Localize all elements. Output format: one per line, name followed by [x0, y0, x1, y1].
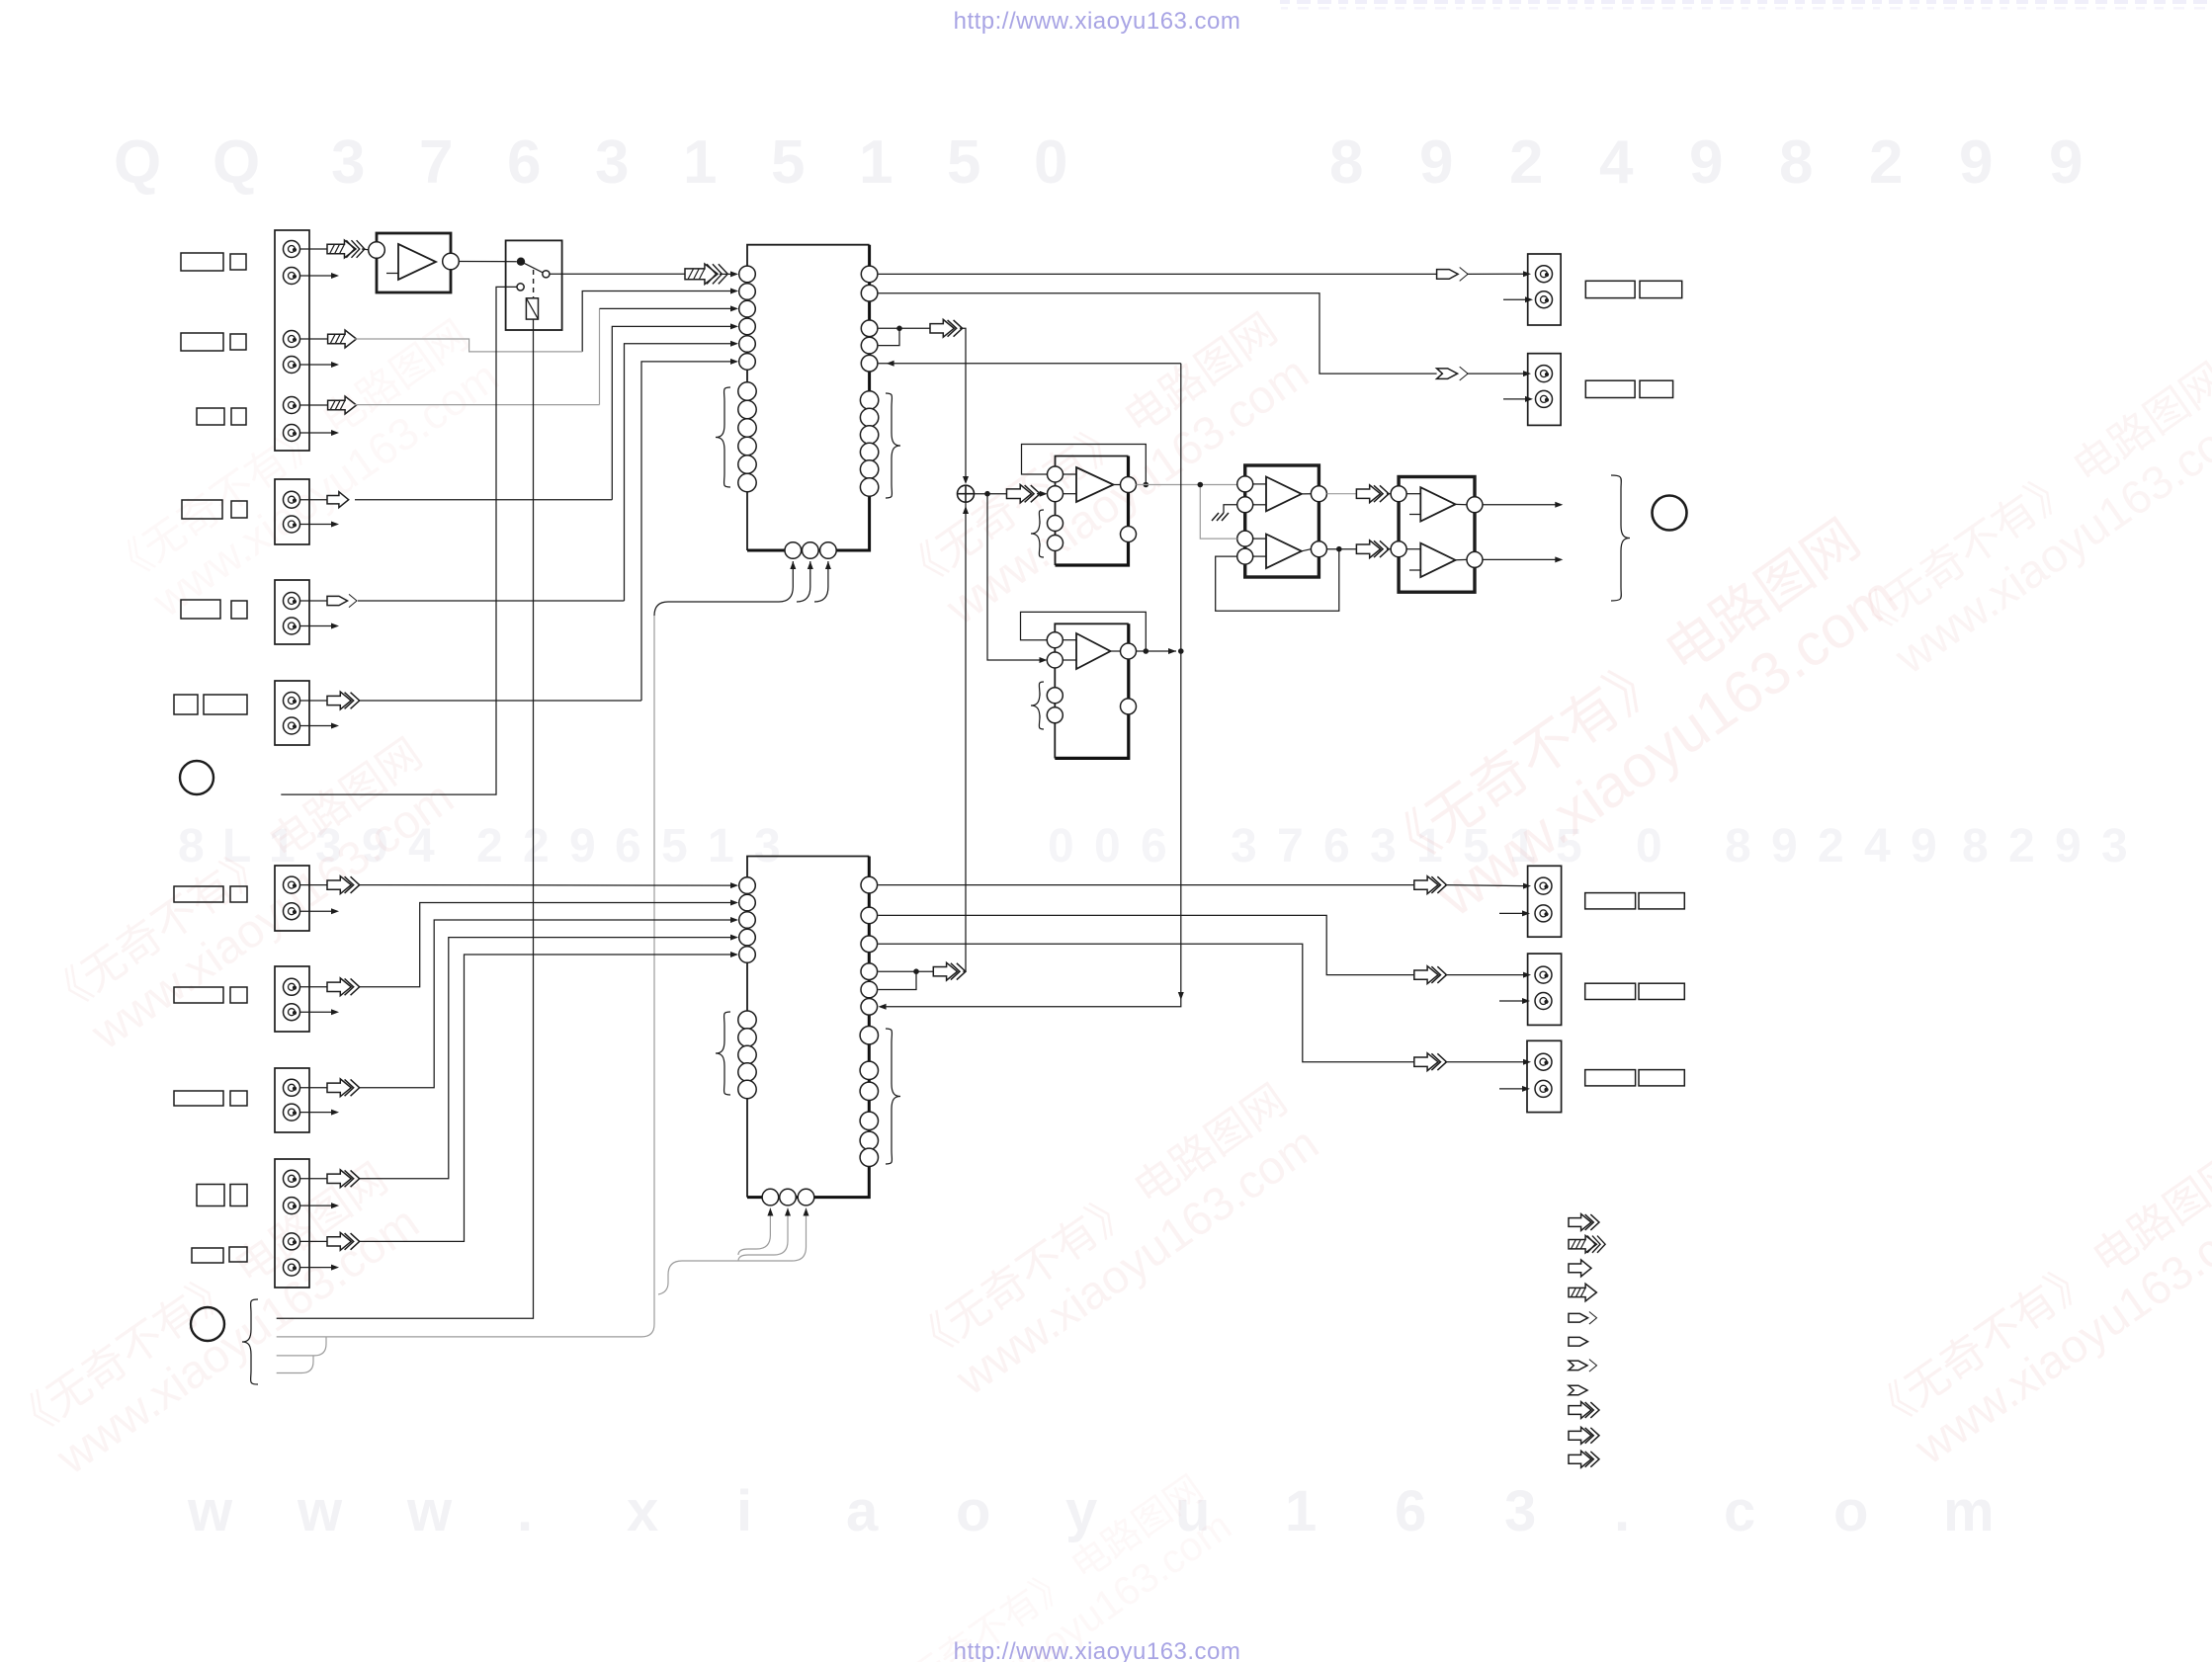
- IC2 left pin 3: [739, 912, 756, 929]
- label box L4a (G2): [182, 500, 222, 519]
- IC1 left pin 6: [739, 354, 756, 371]
- wire riser x606 (pin3 feed): [599, 308, 601, 404]
- opamp L2 gain brace: [1031, 682, 1044, 729]
- G8 row4 stub: [299, 1267, 333, 1269]
- blockB int wires: [1406, 493, 1420, 495]
- outline arrow G6: [327, 978, 360, 996]
- outline arrow G8a: [327, 1170, 360, 1188]
- watermark: pink bottom-center: [871, 1467, 1239, 1662]
- outline arrow JB2: [1414, 966, 1447, 984]
- opamp L2 in wires: [1063, 639, 1076, 641]
- blockA out1 circle: [1311, 486, 1326, 502]
- IC1 right pin 5: [861, 355, 878, 372]
- G8 jack4: [284, 1259, 300, 1276]
- hatched arrow D: [328, 396, 357, 414]
- junction dot L2/riser: [1178, 648, 1184, 654]
- hatched arrow C: [328, 330, 357, 348]
- opamp L1 box: [1056, 457, 1129, 566]
- IC2 left pin 1: [739, 877, 756, 894]
- wire amp out to relay: [459, 261, 517, 263]
- blockB tri2 inv stub: [1409, 569, 1420, 571]
- G5 row2 stub: [299, 910, 333, 912]
- label G7a: [174, 1091, 223, 1106]
- outline arrow G7: [327, 1079, 360, 1097]
- gray row4 merge: [277, 1357, 313, 1373]
- JT1 jack2 stub: [1503, 298, 1527, 300]
- G6 jack2: [284, 1004, 300, 1021]
- outline arrow G8b: [327, 1232, 360, 1250]
- wire IC1 right pin2 to jack: [879, 293, 1437, 374]
- IC2 right aux pin 3: [860, 1082, 878, 1100]
- opamp L1 in wires: [1063, 473, 1077, 475]
- gray row3 merge: [277, 1337, 326, 1356]
- opamp L1 below-in2 chain: [1055, 502, 1057, 565]
- wire G7 row1 to arrow: [299, 1087, 327, 1089]
- legend arrow 4 hatched: [1569, 1284, 1596, 1301]
- wire IC1 pin2 elbow: [582, 291, 731, 352]
- JB2 jack2 stub: [1499, 1000, 1523, 1002]
- connector group G1 box: [275, 230, 309, 451]
- IC1 right brace: [886, 393, 900, 498]
- label G6b: [230, 987, 247, 1003]
- G2 RCA jack row2: [284, 618, 300, 634]
- buffer amp box A1: [377, 233, 451, 292]
- blockA in2 circle: [1237, 497, 1253, 513]
- G8 jack3: [284, 1233, 300, 1250]
- IC1 left aux pin 6: [738, 473, 756, 491]
- hatched arrow B (to IC1 pin1): [685, 264, 727, 285]
- wire sum out to dot: [975, 493, 1007, 495]
- wire relay NC down-left: [281, 287, 517, 794]
- opamp L2 in1 circle: [1047, 632, 1063, 648]
- wire riser x649 to IC1 pin6: [641, 362, 731, 701]
- G1 RCA jack row5: [284, 397, 300, 414]
- blockB out1 circle: [1467, 497, 1483, 513]
- wire in3 tap: [1200, 485, 1236, 540]
- wire tag to JT1: [1467, 273, 1524, 275]
- G4 RCA jack row1: [284, 693, 300, 709]
- label G5b: [230, 886, 247, 902]
- wire jack5 gray to riser x606: [355, 404, 600, 406]
- IC1 bottom pin2 hook: [797, 561, 810, 602]
- G1 RCA jack row6: [284, 425, 300, 442]
- IC2 bottom pin2 hook: [738, 1208, 788, 1262]
- connector group G3 box (y500): [275, 479, 309, 544]
- label box L2b: [230, 334, 246, 350]
- outline arrow F (to opamp L1): [1007, 484, 1041, 502]
- wire arrow to JB2: [1445, 974, 1524, 976]
- opamp L2 in2 circle: [1047, 652, 1063, 668]
- IC2 right aux pin 6: [860, 1148, 878, 1166]
- label G8b: [230, 1185, 247, 1206]
- G8 row2 stub: [299, 1205, 333, 1206]
- IC1 left aux pin 2: [738, 400, 756, 418]
- wire G1 jack3 to hatch arrow C: [299, 338, 327, 340]
- opamp L2 gain pin1: [1047, 688, 1063, 704]
- wire IC1 pin5 from riser: [879, 363, 1181, 365]
- IC2 bottom pin 3: [798, 1189, 814, 1205]
- ctag arrow JT2: [1437, 367, 1469, 380]
- bottom-left brace: [242, 1299, 258, 1384]
- amp A1 output circle: [443, 253, 460, 270]
- svg-text:0: 0: [1034, 128, 1067, 197]
- G5 jack2: [284, 903, 300, 920]
- JB3 jack2: [1535, 1080, 1552, 1097]
- wire IC2 pin4 out: [878, 970, 933, 972]
- opamp L2 triangle: [1076, 633, 1111, 669]
- wire G1 jack1 to arrow: [299, 248, 327, 250]
- IC2 bottom pin 2: [780, 1189, 797, 1205]
- outline arrow E (rec out): [930, 319, 963, 337]
- watermark: pink right-edge-bottom: [1860, 1144, 2212, 1486]
- wire G8 row1 to arrow: [299, 1178, 327, 1180]
- G1 RCA jack row1: [284, 241, 300, 258]
- wire G3 to riser x631: [358, 600, 625, 602]
- wire riser x977 sum to IC2: [965, 503, 967, 971]
- wire arrow to blockB in1: [1387, 493, 1391, 495]
- label box L5b (G3): [231, 601, 247, 619]
- label JT1a: [1585, 281, 1635, 297]
- opamp L1 gain brace: [1031, 510, 1044, 557]
- wire G3y500 row1 to arrow: [299, 499, 327, 501]
- connector group G7 box: [275, 1068, 309, 1132]
- G2 RCA jack row1: [284, 593, 300, 610]
- IC1 right aux pin 1: [860, 391, 878, 409]
- legend arrow 1 outline+2chev: [1569, 1214, 1599, 1231]
- wire IC2 pin2 to JB2: [878, 915, 1414, 974]
- wire L1 out to blockA: [1137, 484, 1237, 486]
- blockB triangle1: [1420, 487, 1455, 521]
- legend arrow 6 tag: [1569, 1337, 1587, 1346]
- JT2 jack2 stub: [1503, 398, 1527, 400]
- wire IC1 right pin1 to jack: [879, 273, 1437, 275]
- IC1 right pin 4: [861, 337, 878, 354]
- blockA out2 circle: [1311, 541, 1326, 557]
- IC2 right pin 5: [861, 981, 878, 998]
- watermark: pink right-big: [1369, 507, 1911, 942]
- wire G8r3 to IC2 pin5: [359, 955, 731, 1241]
- circle K2: [191, 1307, 224, 1341]
- JT2 jack2: [1536, 390, 1553, 407]
- opamp L2 feedback loop: [1021, 612, 1147, 651]
- IC1 right aux pin 6: [860, 478, 878, 496]
- bus from IC1 bottom (black part): [654, 602, 779, 616]
- wire blockA in4 feedback: [1216, 549, 1339, 612]
- IC1 right aux pin 5: [860, 460, 878, 478]
- speaker brace: [1611, 475, 1630, 601]
- IC2 left pin 4: [739, 929, 756, 946]
- G6 row2 stub: [299, 1011, 333, 1013]
- connector group G5 box: [275, 866, 309, 931]
- wire arrowF to L1 in2: [1037, 493, 1040, 495]
- label JT2b: [1640, 380, 1673, 397]
- power amp block B box: [1399, 477, 1475, 593]
- outline arrow G4: [327, 692, 360, 709]
- connector group G6 box: [275, 966, 309, 1032]
- IC1 bottom pin3 hook: [814, 561, 828, 602]
- blockB triangle2: [1420, 543, 1455, 577]
- opamp L1 output circle: [1121, 477, 1137, 493]
- wire G7 to IC2 pin3: [359, 920, 731, 1088]
- outline arrow JB1: [1414, 876, 1447, 894]
- label box L1a: [181, 253, 223, 271]
- IC2 right pin 4: [861, 963, 878, 980]
- watermark: pink left-top: [100, 311, 507, 637]
- G2 row2 stub arrow: [299, 524, 333, 526]
- wire G5 to IC2 pin1: [359, 884, 731, 887]
- outline arrow JB3: [1414, 1053, 1447, 1071]
- label box L2a: [181, 333, 223, 351]
- relay box K-RY: [506, 240, 562, 330]
- label G9a: [192, 1248, 223, 1263]
- opamp L1 gain pin2: [1048, 536, 1063, 551]
- label G9b: [229, 1247, 247, 1262]
- opamp L2 gain pin2: [1047, 707, 1063, 723]
- label JT2a: [1585, 380, 1635, 397]
- G3 RCA jack row2: [284, 516, 300, 533]
- svg-text:229: 229: [476, 820, 596, 873]
- IC1 left aux pin 5: [738, 456, 756, 473]
- IC2 left pin 5: [739, 947, 756, 963]
- wire G2 to riser x619: [355, 499, 612, 501]
- tag arrow G3: [327, 594, 357, 607]
- JB1 jack2 stub: [1499, 912, 1523, 914]
- wire G6 row1 to arrow: [299, 986, 327, 988]
- jack group JB1 box: [1528, 866, 1562, 937]
- G1 RCA jack row2: [284, 268, 300, 285]
- opamp L1 out wire int: [1114, 484, 1121, 486]
- wire relay NO to hatched arrow B: [550, 273, 685, 275]
- IC1 bottom pin 2: [803, 542, 819, 559]
- outline arrow G5: [327, 876, 360, 894]
- svg-text:006: 006: [1048, 820, 1167, 873]
- legend arrow 10 outline+2chev: [1569, 1427, 1599, 1444]
- connector group G8 box: [275, 1159, 309, 1288]
- IC2 right aux pin 1: [860, 1027, 878, 1044]
- JB3 jack1: [1535, 1053, 1552, 1070]
- wire G5 row1 to arrow: [299, 884, 327, 886]
- legend arrow 9 outline+2chev: [1569, 1402, 1599, 1419]
- G1 jack2 stub arrow: [299, 275, 333, 277]
- junction dot sum out: [984, 491, 990, 497]
- IC2 right pin 1: [861, 876, 878, 893]
- opamp L2 below-in2 chain: [1054, 668, 1056, 758]
- legend arrow 2 hatched+3chev: [1569, 1235, 1605, 1253]
- junction dot pin3/pin4: [896, 326, 902, 332]
- opamp L2 out wire int: [1111, 650, 1121, 652]
- relay contact NC circle: [517, 284, 524, 291]
- outline arrow G2 (plain): [327, 492, 349, 508]
- G3 row2 stub arrow: [299, 625, 333, 627]
- IC2 left brace: [716, 1012, 730, 1095]
- ground symbol blockA in2: [1224, 505, 1237, 513]
- wire riser x631 to IC1 pin5: [625, 344, 732, 601]
- watermark: pink left-bottom: [2, 1154, 428, 1496]
- IC1 right aux pin 3: [860, 426, 878, 444]
- opamp L1 gain pin1: [1048, 516, 1063, 532]
- IC2 selector box: [747, 857, 869, 1198]
- label G8a: [197, 1185, 224, 1206]
- wire sumdot down to L2: [987, 494, 1040, 660]
- wire arrowB to IC1 pin1: [720, 273, 731, 275]
- outline arrow G1out: [1356, 485, 1389, 503]
- IC2 bottom pin 1: [762, 1189, 779, 1205]
- relay coil box: [526, 298, 538, 319]
- connector group G4 box: [275, 681, 309, 745]
- label G7b: [230, 1091, 247, 1106]
- IC2 right pin 2: [861, 907, 878, 924]
- IC1 bottom pin1 hook: [779, 561, 793, 602]
- label box L1b: [230, 254, 246, 270]
- IC1 left aux pin 4: [738, 437, 756, 455]
- wire blockB out2 to speaker: [1483, 558, 1556, 560]
- G6 jack1: [284, 978, 300, 995]
- G3 RCA jack row1: [284, 491, 300, 508]
- blockA in1 circle: [1237, 476, 1253, 492]
- watermark: pink center-bottom: [901, 1075, 1327, 1417]
- blockA int wires: [1253, 483, 1266, 485]
- blockB in2 circle: [1391, 541, 1406, 557]
- blockA in3 circle: [1237, 531, 1253, 546]
- blockA triangle2: [1266, 535, 1302, 569]
- wire IC2 pin1 to JB1: [878, 884, 1414, 886]
- outline arrow G2out: [1356, 540, 1389, 558]
- JT1 jack1: [1536, 266, 1553, 283]
- G1 RCA jack row4: [284, 357, 300, 374]
- IC2 left pin 2: [739, 894, 756, 911]
- amp A1 input circle: [369, 242, 385, 259]
- G1 RCA jack row3: [284, 331, 300, 348]
- IC2 left aux pin 3: [738, 1045, 756, 1063]
- G4 RCA jack row2: [284, 717, 300, 734]
- IC1 left pin 4: [739, 318, 756, 335]
- wire relay coil down to bottom row1: [277, 319, 534, 1318]
- relay contact NO circle: [543, 271, 550, 278]
- wire riser x619 to IC1 pin4: [612, 326, 731, 499]
- IC2 left aux pin 1: [738, 1011, 756, 1029]
- watermark: pink center-top: [892, 304, 1318, 646]
- G8 jack1: [284, 1170, 300, 1187]
- label box L5a (G3): [181, 600, 220, 619]
- wire blockB out1 to speaker: [1483, 504, 1556, 506]
- hatched arrow A (video in): [327, 240, 365, 258]
- G7 jack1: [284, 1079, 300, 1096]
- IC2 right aux pin 2: [860, 1061, 878, 1079]
- wire ctag to JT2: [1467, 373, 1524, 374]
- sum node circle: [958, 485, 975, 502]
- IC1 left brace: [716, 387, 730, 487]
- G7 row2 stub: [299, 1112, 333, 1114]
- G8 jack2: [284, 1198, 300, 1214]
- IC1 bottom pin 1: [785, 542, 802, 559]
- watermark: top edge cut-off glyph row: [1280, 0, 2207, 10]
- wire arrow to blockB in2: [1387, 548, 1391, 550]
- IC1 right aux pin 4: [860, 443, 878, 460]
- outline arrow H (rec out 2): [933, 962, 966, 980]
- JB1 jack1: [1535, 877, 1552, 894]
- jack group JB3 box: [1527, 1040, 1562, 1112]
- wire blockA out2: [1326, 548, 1356, 550]
- wire G6 to IC2 pin2: [359, 903, 731, 987]
- wire G8 row3 to arrow: [299, 1240, 327, 1242]
- blockA triangle1: [1266, 477, 1302, 512]
- jack group JB2 box: [1528, 954, 1562, 1025]
- opamp L2 box: [1055, 623, 1129, 758]
- label JB2b: [1639, 983, 1684, 999]
- label JB3b: [1639, 1070, 1684, 1086]
- legend arrow 7 ctag+chev: [1569, 1360, 1597, 1372]
- label box L6a (G4): [174, 695, 198, 714]
- IC2 right pin 6: [861, 999, 878, 1016]
- IC2 left aux pin 4: [738, 1063, 756, 1081]
- junction dot L2 out: [1144, 648, 1149, 654]
- amp A1 inverting stub: [386, 273, 398, 275]
- speaker circle: [1653, 496, 1687, 531]
- IC2 left aux pin 2: [738, 1029, 756, 1046]
- IC1 right pin 1: [861, 266, 878, 283]
- jack group JT2 box: [1528, 354, 1561, 426]
- wire arrow to JB3: [1445, 1061, 1524, 1063]
- opamp L2 output circle: [1121, 643, 1137, 659]
- IC2 bottom pin3 hook: [658, 1208, 807, 1295]
- opamp L1 in1 circle: [1048, 466, 1063, 482]
- wire riser to IC1 pin3: [600, 307, 732, 309]
- wire IC1 pin3 out: [879, 327, 930, 329]
- wire G1 jack5 to hatch arrow D: [299, 404, 327, 406]
- blockB in1 circle: [1391, 486, 1406, 502]
- IC1 right pin 3: [861, 320, 878, 337]
- IC1 selector box: [747, 245, 870, 550]
- connector group G2 box: [275, 580, 309, 644]
- tag arrow JT1: [1437, 267, 1469, 281]
- watermark: pink right-edge-top: [1840, 354, 2212, 696]
- IC1 left pin 5: [739, 336, 756, 353]
- wire riser to IC2 pin6: [887, 1000, 1181, 1007]
- wire arrow to JB1: [1445, 885, 1524, 886]
- label box L3b: [231, 408, 246, 425]
- IC1 right pin 2: [861, 285, 878, 301]
- relay dashed link: [533, 270, 535, 297]
- label G6a: [174, 987, 223, 1003]
- wire jack3 gray path to pin2 riser: [355, 339, 583, 352]
- label JB2a: [1585, 983, 1636, 999]
- wire IC2 pin5 link: [878, 971, 916, 989]
- label box L4b (G2): [231, 501, 247, 518]
- wire blockA out1: [1326, 493, 1356, 495]
- G1 jack4 stub arrow: [299, 364, 333, 366]
- label box L6b (G4): [204, 695, 247, 714]
- junction dot in3 tap: [1198, 482, 1204, 488]
- wire IC1 pin4 link: [879, 328, 899, 345]
- wire G3 row1 to tag arrow: [299, 600, 327, 602]
- label JB3a: [1585, 1070, 1636, 1086]
- amp A1 triangle: [398, 244, 436, 280]
- IC1 left aux pin 3: [738, 419, 756, 437]
- legend arrow 8 ctag: [1569, 1385, 1587, 1395]
- svg-text:0: 0: [1636, 820, 1662, 873]
- legend arrow 5 tag+chev: [1569, 1312, 1597, 1325]
- opamp L1 bottom-right pin: [1121, 527, 1137, 542]
- legend arrow 3 outline: [1569, 1260, 1591, 1277]
- IC1 left pin 2: [739, 284, 756, 300]
- wire arrow to amp input: [362, 248, 369, 251]
- IC2 right aux pin 4: [860, 1112, 878, 1129]
- IC2 right aux pin 5: [860, 1131, 878, 1149]
- relay lever: [521, 262, 544, 274]
- opamp L1 triangle: [1076, 467, 1114, 502]
- wire arrowH to riser: [963, 970, 966, 972]
- junction dot L1 out: [1144, 482, 1149, 488]
